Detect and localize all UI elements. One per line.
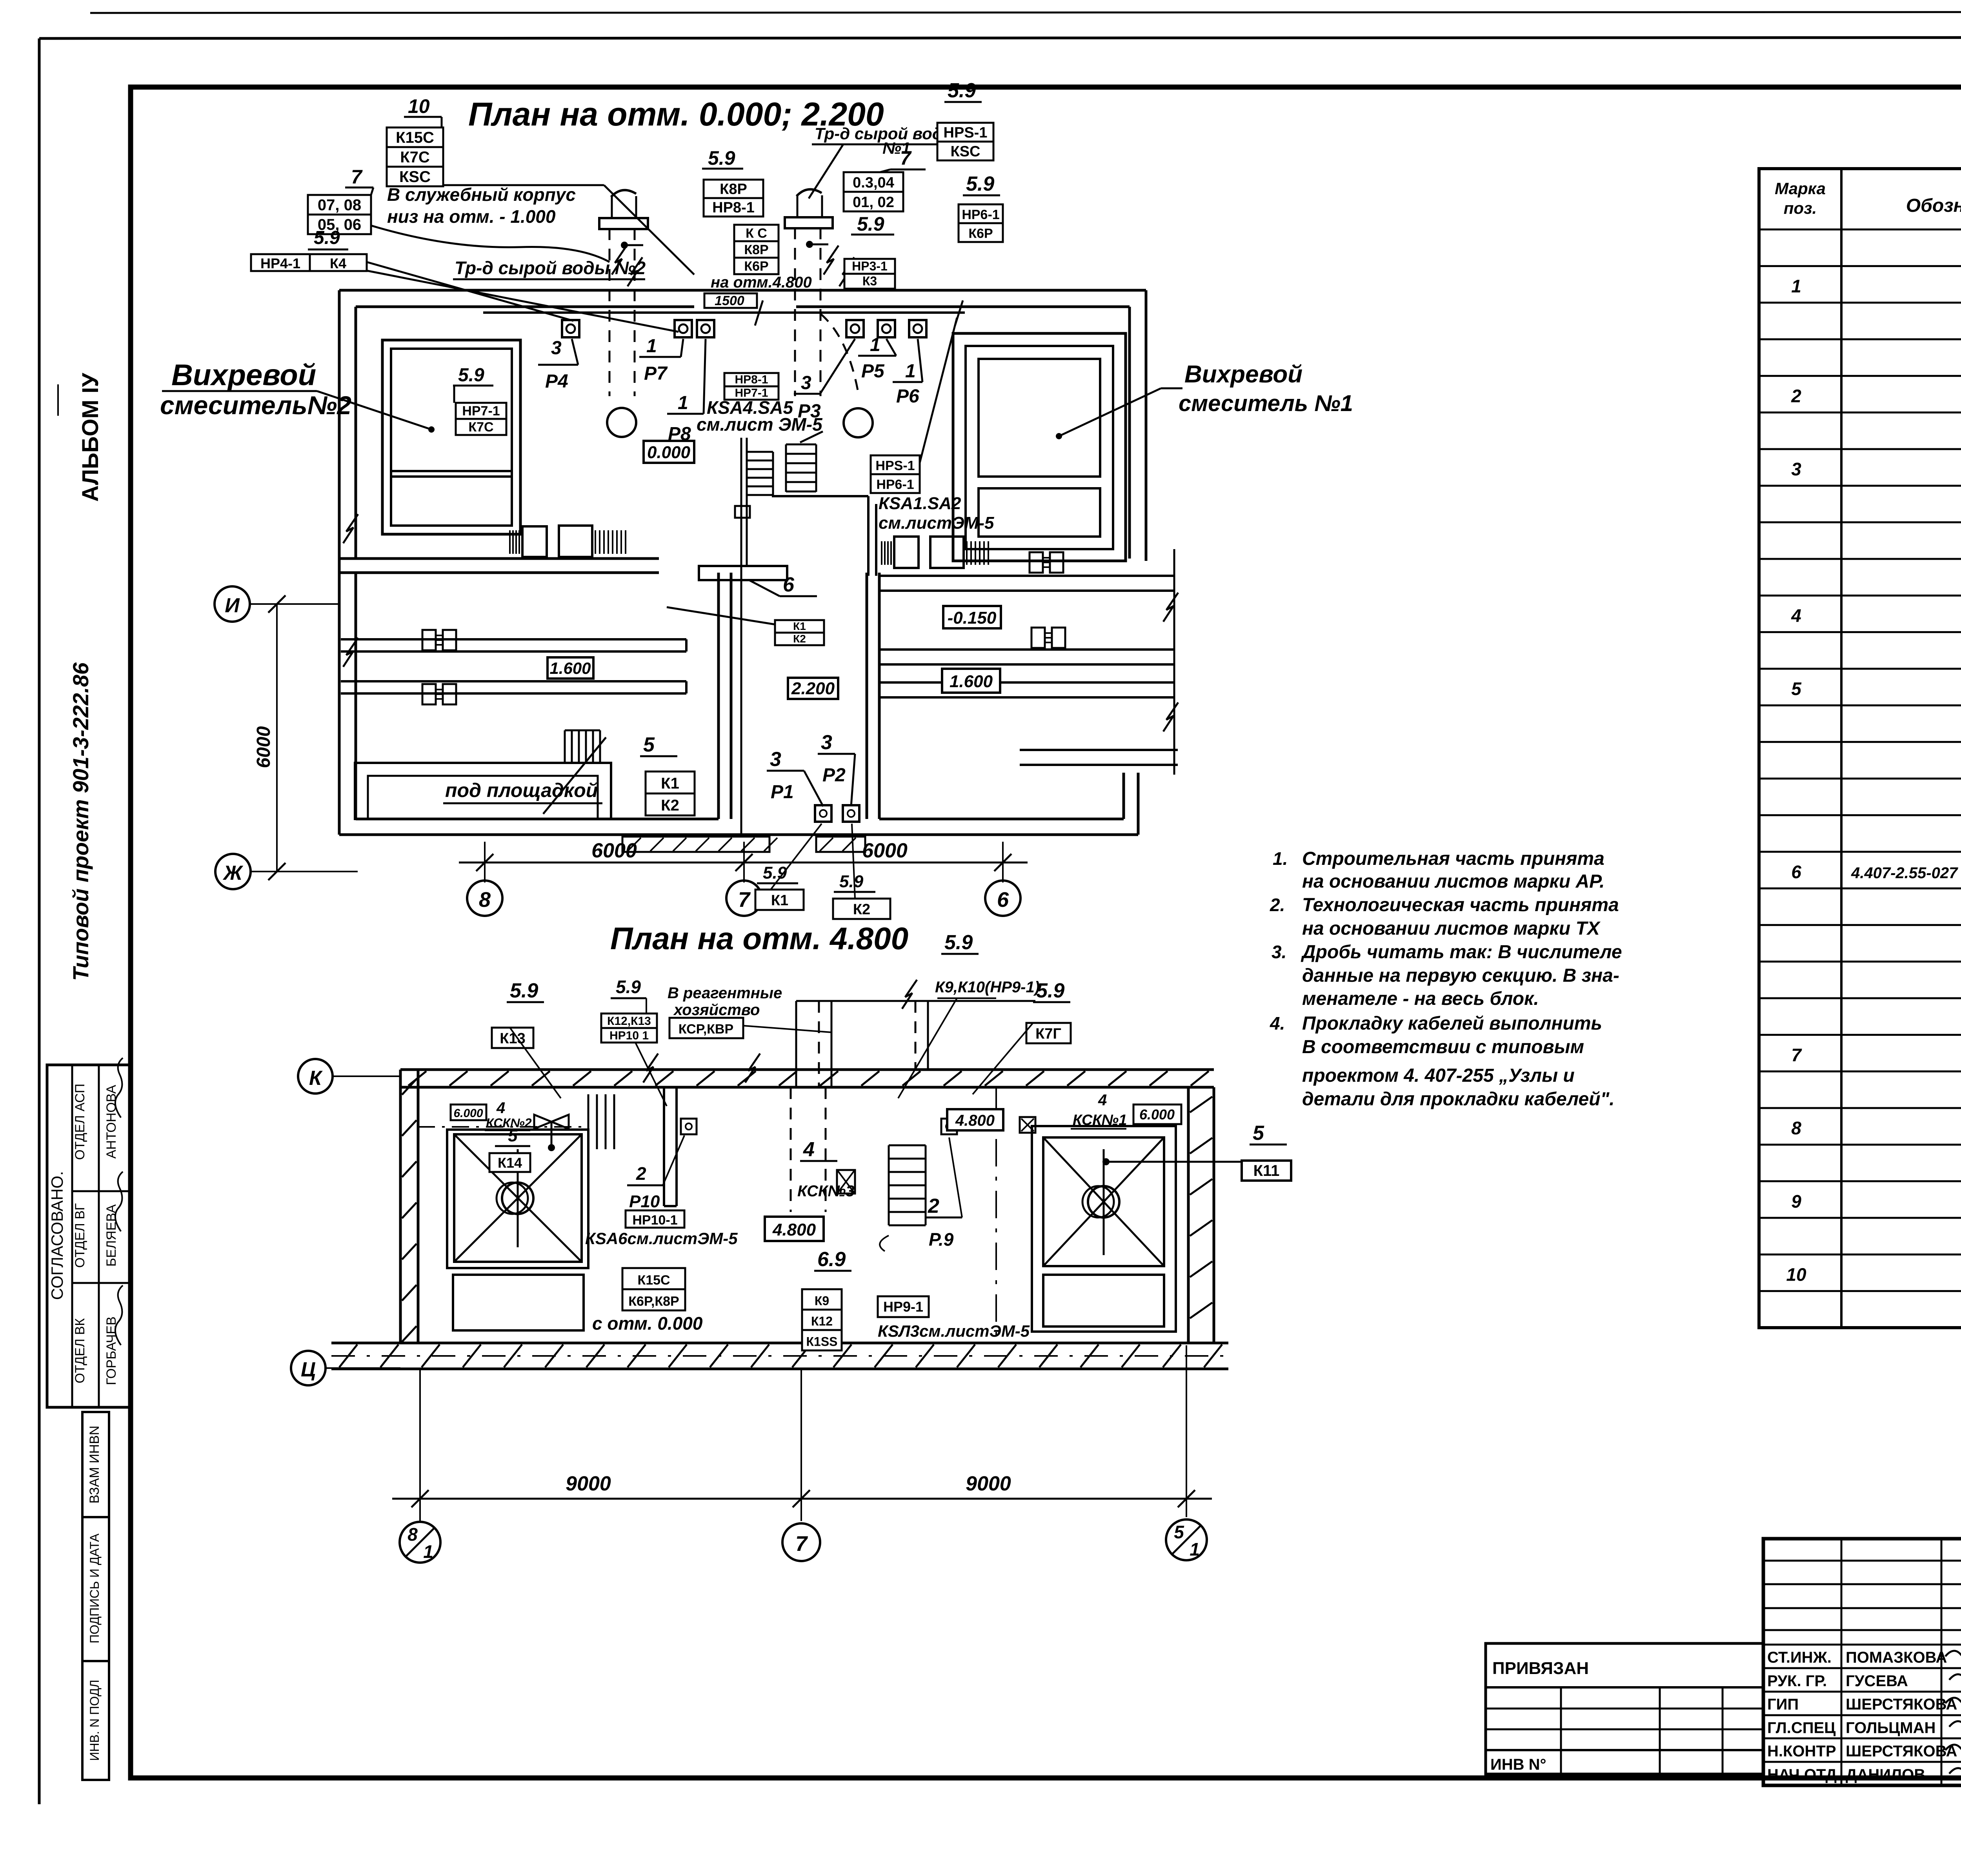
svg-text:3: 3 [801, 373, 811, 393]
plan2 bottom wall (I axis) [331, 1343, 1228, 1369]
plan1 label 5.9 NR6-1 K6P [959, 173, 1003, 242]
plan1 note trd syroy vody 2 [453, 258, 646, 279]
plan1 pod ploshchadkoy [443, 779, 602, 803]
plan2 flag 5 K14 [489, 1126, 530, 1172]
svg-text:1: 1 [646, 336, 657, 357]
plan2 dimension line 9000+9000 [392, 1472, 1212, 1507]
svg-text:07, 08: 07, 08 [318, 197, 361, 214]
svg-text:ОТДЕЛ ВГ: ОТДЕЛ ВГ [73, 1203, 87, 1268]
svg-text:7: 7 [738, 888, 751, 912]
plan1 axis Zh circle [215, 854, 358, 889]
svg-text:ВЗАМ ИНВN: ВЗАМ ИНВN [87, 1426, 102, 1504]
svg-text:4.407-2.55-027 исп. 4: 4.407-2.55-027 исп. 4 [1851, 864, 1961, 882]
plan2 witness lines [420, 1345, 1186, 1521]
svg-text:НРS-1: НРS-1 [875, 458, 915, 473]
plan2 sensor near KCK2 [534, 1115, 569, 1151]
svg-text:5.9: 5.9 [458, 365, 484, 386]
plan1 lower-left stair [543, 730, 606, 814]
plan2 label NR10-1 [585, 1210, 738, 1248]
svg-text:7: 7 [900, 147, 912, 169]
plan1 flag 3/P1 [767, 748, 823, 806]
title block signatures labels [1767, 1647, 1961, 1783]
svg-text:5: 5 [1174, 1522, 1184, 1542]
plan1 flag 3/P4 [538, 338, 578, 392]
plan1 elevation -0.150 [943, 606, 1001, 628]
svg-text:ОТДЕЛ ВК: ОТДЕЛ ВК [73, 1318, 87, 1383]
svg-text:5.9: 5.9 [510, 979, 538, 1002]
table body text [1786, 239, 1961, 1321]
svg-text:КSА1.SА2: КSА1.SА2 [879, 494, 961, 513]
album label [58, 373, 103, 502]
plan2 axis K circle [298, 1059, 400, 1094]
svg-text:ПРИВЯЗАН: ПРИВЯЗАН [1492, 1659, 1589, 1678]
plan2 label 5.9 K9K10 [898, 931, 1040, 1098]
svg-text:Марка: Марка [1775, 179, 1826, 198]
svg-text:5.9: 5.9 [839, 872, 864, 891]
svg-text:6: 6 [997, 888, 1009, 912]
svg-text:ГОЛЬЦМАН: ГОЛЬЦМАН [1846, 1719, 1936, 1736]
svg-text:0.3,04: 0.3,04 [853, 175, 894, 191]
svg-text:1.600: 1.600 [549, 659, 591, 677]
svg-text:Дробь читать так: В числителе: Дробь читать так: В числителе [1301, 942, 1622, 963]
svg-text:1: 1 [678, 393, 688, 413]
svg-text:смеситель№2: смеситель№2 [160, 391, 351, 420]
svg-text:1500: 1500 [715, 293, 744, 308]
plan1 elevation 2.200 [788, 678, 838, 699]
plan1 label 5.9 K8P NR8-1 [702, 147, 763, 217]
svg-text:НР6-1: НР6-1 [962, 207, 999, 222]
svg-text:10: 10 [1786, 1265, 1806, 1285]
svg-text:поз.: поз. [1784, 199, 1817, 217]
plan2 flag 5 K11 right [1102, 1122, 1291, 1181]
svg-text:5.9: 5.9 [966, 173, 994, 195]
svg-text:5: 5 [508, 1126, 518, 1145]
plan2 label NR9-1 [878, 1296, 1030, 1340]
svg-text:КSС: КSС [951, 143, 980, 160]
svg-text:Строительная часть принята: Строительная часть принята [1302, 848, 1604, 869]
plan1 long settling tanks right [879, 549, 1178, 775]
svg-text:6000: 6000 [253, 726, 274, 768]
svg-text:5.9: 5.9 [708, 147, 735, 169]
svg-text:1.: 1. [1273, 848, 1288, 869]
svg-text:К8Р: К8Р [720, 181, 747, 198]
plan1 sensors row [562, 320, 926, 337]
plan1 title [468, 96, 884, 133]
svg-text:4.800: 4.800 [955, 1112, 995, 1129]
plan1 flag 5.9/K1 below [755, 824, 822, 910]
svg-text:К1: К1 [771, 892, 788, 909]
plan1 mixer feed circle left [607, 408, 636, 437]
plan1 pump assembly right [882, 537, 988, 568]
plan1 bottom sensors [815, 805, 859, 822]
svg-text:СОГЛАСОВАНО.: СОГЛАСОВАНО. [48, 1171, 66, 1300]
svg-text:6.000: 6.000 [453, 1107, 483, 1120]
svg-text:2: 2 [1791, 386, 1801, 406]
plan2 flag 2/P9 [925, 1137, 962, 1250]
svg-text:К9,К10(НР9-1): К9,К10(НР9-1) [935, 979, 1040, 996]
plan1 long leader from K4 to sensor1 [367, 262, 573, 321]
plan1 leader fence to pipe1 [371, 185, 694, 275]
plan1 vertical dim 6000 [253, 595, 286, 880]
svg-text:В служебный корпус: В служебный корпус [387, 184, 576, 205]
svg-text:4: 4 [1791, 606, 1801, 626]
plan1 I-axis walls [339, 559, 659, 573]
plan2 label 5.9 K12K13 NR10-1 [601, 977, 667, 1106]
svg-text:К2: К2 [853, 901, 870, 918]
plan1 cable line [483, 300, 965, 326]
svg-text:К: К [309, 1067, 323, 1090]
plan1 raw water pipe 2 (dashed riser) [599, 190, 648, 396]
svg-text:К8Р: К8Р [744, 242, 768, 257]
privyazan extension block [1486, 1643, 1763, 1774]
approval stamp [47, 1058, 131, 1407]
table headers [1775, 179, 1961, 223]
svg-text:см.листЭМ-5: см.листЭМ-5 [879, 513, 994, 533]
svg-text:см.лист ЭМ-5: см.лист ЭМ-5 [697, 414, 823, 435]
svg-text:5.9: 5.9 [944, 931, 973, 954]
svg-text:К7С: К7С [468, 420, 493, 435]
plan2 centre stair [880, 1145, 926, 1251]
plan1 label 7 with 03,04 01,02 [844, 147, 926, 211]
svg-text:1: 1 [1190, 1539, 1200, 1559]
plan2 axis circle 7 [782, 1523, 820, 1561]
plan1 axis circle 7 [726, 862, 762, 916]
svg-text:6000: 6000 [862, 839, 908, 862]
svg-text:НР6-1: НР6-1 [876, 477, 914, 492]
svg-text:НР4-1: НР4-1 [260, 255, 300, 271]
plan2 right tank [1032, 1126, 1176, 1332]
plan1 mixer feed circle right [844, 408, 873, 437]
svg-text:К2: К2 [793, 633, 806, 645]
plan1 building outer walls [339, 290, 1146, 835]
svg-text:ИНВ. N ПОДЛ: ИНВ. N ПОДЛ [87, 1679, 102, 1761]
svg-text:2: 2 [636, 1163, 646, 1184]
project label (rotated) [68, 662, 93, 981]
plan2 sensor P10 [681, 1119, 697, 1134]
plan2 partition wall left-centre [664, 1087, 677, 1206]
svg-text:БЕЛЯЕВА: БЕЛЯЕВА [104, 1204, 119, 1266]
svg-text:КSЛ3см.листЭМ-5: КSЛ3см.листЭМ-5 [878, 1322, 1030, 1340]
svg-text:Р2: Р2 [822, 765, 846, 786]
vzam inv box [82, 1412, 109, 1517]
plan1 dimension line 6000+6000 [459, 839, 1028, 871]
svg-text:8: 8 [407, 1524, 418, 1545]
svg-text:АЛЬБОМ ІУ: АЛЬБОМ ІУ [78, 373, 103, 502]
svg-text:3.: 3. [1272, 942, 1286, 962]
svg-text:НР7-1: НР7-1 [462, 404, 500, 419]
svg-text:6.9: 6.9 [817, 1248, 846, 1271]
svg-text:низ на отм. - 1.000: низ на отм. - 1.000 [387, 206, 556, 227]
plan1 note v sluzhebny korpus [387, 184, 576, 227]
plan1 label 5.9 with NR4-1 K4 [251, 227, 367, 271]
plan1 flag 5.9/K2 below [833, 824, 890, 919]
plan2 label 5.9 K7G [973, 979, 1071, 1094]
svg-text:9000: 9000 [566, 1472, 611, 1495]
svg-text:К15С: К15С [637, 1273, 670, 1288]
plan1 label 5.9 NRS-1 KSC [937, 79, 993, 160]
top scan edge line [90, 12, 1961, 13]
plan1 na otm 4.800 label [704, 274, 812, 308]
plan1 raw water pipe 1 (dashed riser) [785, 189, 858, 396]
svg-text:К9: К9 [815, 1294, 829, 1308]
svg-text:НАЧ.ОТД: НАЧ.ОТД [1767, 1766, 1837, 1783]
plan2 axis circle 5/1 [1166, 1519, 1207, 1560]
plan1 bottom hatched platform [622, 837, 865, 852]
plan2 duct shaft above [791, 980, 1035, 1212]
svg-text:НР9-1: НР9-1 [883, 1299, 923, 1315]
svg-text:6000: 6000 [591, 839, 637, 862]
svg-text:7: 7 [351, 166, 363, 188]
svg-text:ГОРБАЧЕВ: ГОРБАЧЕВ [104, 1316, 119, 1385]
svg-text:детали для прокладки кабелей".: детали для прокладки кабелей". [1302, 1089, 1615, 1110]
svg-text:Р.9: Р.9 [929, 1229, 954, 1250]
svg-text:Н.КОНТР: Н.КОНТР [1767, 1743, 1836, 1760]
plan2 partition dashdot axis [995, 1087, 997, 1343]
plan2 axis I circle [291, 1351, 400, 1385]
svg-text:НР10-1: НР10-1 [632, 1213, 677, 1228]
svg-text:Р7: Р7 [644, 363, 668, 384]
svg-text:К12: К12 [811, 1314, 833, 1328]
svg-text:4: 4 [496, 1099, 505, 1117]
svg-text:проектом 4. 407-255 „Узлы и: проектом 4. 407-255 „Узлы и [1302, 1065, 1575, 1086]
plan2 label 5.9 K13 [492, 979, 561, 1098]
plan1 elevation 1.600 left [548, 657, 593, 679]
svg-text:ГИП: ГИП [1767, 1696, 1799, 1713]
svg-text:9000: 9000 [966, 1472, 1011, 1495]
svg-text:на основании листов марки ТХ: на основании листов марки ТХ [1302, 918, 1601, 939]
svg-text:1: 1 [423, 1541, 433, 1562]
svg-text:7: 7 [795, 1532, 808, 1556]
svg-text:Р6: Р6 [896, 386, 919, 407]
svg-text:5.9: 5.9 [857, 213, 884, 235]
svg-text:Р4: Р4 [545, 371, 568, 392]
plan2 sensor P9 [941, 1119, 957, 1134]
svg-text:6: 6 [783, 573, 795, 596]
plan2 title [610, 921, 908, 956]
svg-text:1.600: 1.600 [950, 672, 993, 691]
plan2 label 6.000 right [1133, 1104, 1181, 1124]
svg-text:5: 5 [1253, 1122, 1264, 1145]
podpis i data box [82, 1517, 109, 1661]
plan1 elevation 1.600 right [942, 669, 1000, 693]
svg-text:ДАНИЛОВ: ДАНИЛОВ [1846, 1766, 1925, 1783]
svg-text:6: 6 [1791, 862, 1801, 882]
svg-text:хозяйство: хозяйство [673, 1001, 760, 1019]
inv n podl box [82, 1661, 109, 1780]
plan2 flag 2/P10 [627, 1135, 684, 1211]
svg-text:РУК. ГР.: РУК. ГР. [1767, 1672, 1827, 1690]
svg-text:4.: 4. [1270, 1013, 1285, 1034]
svg-text:Типовой проект 901-3-222.86: Типовой проект 901-3-222.86 [68, 662, 93, 981]
plan2 label 6.9 K9 K12 K15S [802, 1248, 851, 1350]
svg-text:2.200: 2.200 [791, 679, 835, 698]
svg-text:КСК№1: КСК№1 [1073, 1112, 1127, 1128]
plan1 label KC K8P K6P stack [734, 225, 779, 274]
plan2 label K15C K6PK8P [592, 1268, 703, 1334]
svg-text:ПОМАЗКОВА: ПОМАЗКОВА [1846, 1649, 1947, 1666]
svg-text:5: 5 [1791, 679, 1802, 699]
svg-text:ГУСЕВА: ГУСЕВА [1846, 1672, 1908, 1690]
svg-text:5: 5 [643, 733, 655, 756]
svg-text:1: 1 [905, 361, 916, 382]
svg-text:8: 8 [479, 888, 491, 912]
svg-text:ШЕРСТЯКОВА: ШЕРСТЯКОВА [1846, 1743, 1957, 1760]
plan1 axis I circle [215, 586, 339, 622]
plan1 axis circle 8 [467, 862, 502, 916]
svg-text:ПОДПИСЬ И ДАТА: ПОДПИСЬ И ДАТА [87, 1533, 102, 1643]
svg-text:Ж: Ж [222, 862, 244, 884]
svg-text:СТ.ИНЖ.: СТ.ИНЖ. [1767, 1649, 1832, 1666]
svg-text:менателе - на весь блок.: менателе - на весь блок. [1302, 988, 1539, 1009]
title block left grid [1763, 1539, 1961, 1785]
plan1 flag 1/P5 [858, 335, 896, 382]
plan2 label 6.000 left + KCK2 [451, 1099, 532, 1130]
plan1 elevation 0.000 [644, 441, 694, 463]
plan1 flag 1/P8 [667, 339, 706, 444]
svg-text:К7Г: К7Г [1035, 1026, 1061, 1042]
svg-text:К1SS: К1SS [806, 1335, 837, 1349]
plan1 tank pipe connectors [422, 552, 1065, 704]
plan2 top wall (K axis) [400, 1070, 1214, 1087]
svg-text:К7С: К7С [400, 149, 430, 166]
plan1 axis circle 6 [985, 862, 1021, 916]
svg-text:К11: К11 [1253, 1162, 1280, 1179]
svg-text:КSС: КSС [399, 168, 431, 186]
svg-text:3: 3 [1791, 459, 1801, 479]
svg-text:Р1: Р1 [771, 782, 794, 802]
plan1 flag 1/P6 [893, 339, 922, 407]
plan1 label 7 with 07,08 05,06 [308, 166, 373, 234]
plan2 elevation 4.800 right [947, 1109, 1003, 1130]
svg-text:4.800: 4.800 [772, 1220, 816, 1239]
plan1 note trd syroy vody 1 [809, 124, 957, 198]
svg-text:НР10 1: НР10 1 [609, 1029, 649, 1042]
plan1 label 10 with K15C stack [387, 95, 443, 186]
plan1 witness lines [485, 842, 1003, 883]
svg-text:3: 3 [770, 748, 781, 771]
svg-text:План на отм. 4.800: План на отм. 4.800 [610, 921, 908, 956]
plan2 flag 4 KCK3 [797, 1138, 855, 1200]
svg-text:КSА6см.листЭМ-5: КSА6см.листЭМ-5 [585, 1229, 738, 1248]
plan2 left tank [418, 1094, 614, 1330]
plan1 flag 1/P7 [639, 336, 683, 384]
plan1 long settling tanks left [341, 639, 686, 693]
svg-text:НР3-1: НР3-1 [852, 259, 888, 273]
svg-text:Технологическая часть принята: Технологическая часть принята [1302, 895, 1619, 915]
svg-text:01, 02: 01, 02 [853, 194, 894, 211]
svg-text:К14: К14 [498, 1155, 522, 1171]
svg-text:Р5: Р5 [861, 361, 885, 382]
svg-text:1: 1 [1791, 276, 1801, 297]
svg-text:И: И [225, 594, 240, 617]
plan1 vortex mixer 2 label [160, 358, 435, 433]
svg-text:КСК№3: КСК№3 [797, 1183, 855, 1200]
svg-text:7: 7 [1791, 1045, 1802, 1065]
svg-text:Тр-д сырой воды №2: Тр-д сырой воды №2 [455, 258, 646, 278]
svg-text:5.9: 5.9 [616, 977, 641, 997]
svg-text:на основании листов марки АР.: на основании листов марки АР. [1302, 871, 1604, 892]
notes block [1270, 848, 1622, 1110]
plan1 label 5.9 NR3-1 K3 [844, 213, 895, 289]
plan1 pump assembly left [510, 526, 626, 557]
svg-text:ГЛ.СПЕЦ: ГЛ.СПЕЦ [1767, 1719, 1835, 1736]
svg-text:на отм.4.800: на отм.4.800 [711, 274, 812, 291]
svg-text:данные на первую секцию. В зна: данные на первую секцию. В зна- [1302, 965, 1619, 986]
plan1 centre opening walls [719, 573, 879, 819]
plan1 left mixer room [382, 340, 520, 534]
svg-text:НР8-1: НР8-1 [735, 373, 768, 386]
svg-text:Р10: Р10 [629, 1192, 660, 1211]
svg-text:К12,К13: К12,К13 [607, 1015, 651, 1028]
plan2 sensor KCK1 [1020, 1117, 1035, 1133]
svg-text:В соответствии с типовым: В соответствии с типовым [1302, 1037, 1584, 1057]
svg-text:4: 4 [1098, 1092, 1107, 1109]
svg-text:В реагентные: В реагентные [668, 984, 782, 1002]
svg-text:1: 1 [870, 335, 880, 355]
svg-text:5.9: 5.9 [948, 79, 976, 102]
svg-text:К6Р: К6Р [744, 259, 768, 274]
plan2 label 4 KCK1 [1071, 1092, 1127, 1129]
svg-text:0.000: 0.000 [647, 443, 691, 462]
svg-text:10: 10 [408, 95, 430, 117]
plan2 small squiggles on top wall [643, 1054, 760, 1083]
svg-text:4: 4 [803, 1138, 815, 1161]
svg-text:Вихревой: Вихревой [1184, 361, 1302, 388]
svg-text:Ц: Ц [301, 1358, 316, 1381]
svg-text:под площадкой: под площадкой [445, 779, 598, 801]
svg-text:К С: К С [746, 226, 767, 241]
svg-text:9: 9 [1791, 1191, 1801, 1212]
title block outer [1763, 1539, 1961, 1785]
svg-text:Прокладку кабелей выполнить: Прокладку кабелей выполнить [1302, 1013, 1602, 1034]
svg-text:3: 3 [551, 338, 562, 358]
plan2 right wall [1188, 1087, 1214, 1343]
svg-text:Обозначение: Обозначение [1906, 195, 1961, 216]
svg-text:с отм. 0.000: с отм. 0.000 [592, 1313, 703, 1334]
svg-text:ИНВ N°: ИНВ N° [1490, 1756, 1546, 1773]
plan1 label NRS-1 NR6-1 KSA1 [871, 318, 994, 533]
plan1 flag 3/P3 [794, 339, 855, 422]
plan1 label 5.9 NR7-1 K7C in left room [453, 365, 506, 435]
plan1 landing platform [699, 566, 787, 580]
svg-text:НРS-1: НРS-1 [944, 124, 988, 141]
plan2 note v reagentnye [668, 984, 831, 1038]
plan1 pod ploshchadkoy room [355, 763, 611, 819]
equipment table grid [1759, 169, 1961, 1328]
svg-text:К2: К2 [661, 797, 679, 814]
svg-text:2: 2 [928, 1195, 939, 1217]
svg-text:2.: 2. [1270, 895, 1285, 915]
svg-text:ОТДЕЛ АСП: ОТДЕЛ АСП [73, 1084, 87, 1160]
plan1 vortex mixer 1 label [1056, 361, 1353, 439]
svg-text:6.000: 6.000 [1139, 1106, 1175, 1123]
svg-text:К1: К1 [661, 775, 679, 792]
plan1 label NR8-1 NR7-1 KSA4 [697, 373, 823, 435]
svg-text:3: 3 [821, 731, 832, 754]
plan1 flag 5 with K1 K2 [640, 733, 695, 815]
svg-text:смеситель №1: смеситель №1 [1179, 391, 1353, 416]
svg-text:5.9: 5.9 [1036, 979, 1064, 1002]
svg-text:К6Р,К8Р: К6Р,К8Р [628, 1294, 679, 1309]
plan1 flag 3/P2 [818, 731, 855, 806]
plan2 left wall [400, 1070, 418, 1343]
svg-text:К6Р: К6Р [968, 226, 993, 241]
plan1 leader K7C to sensor2 [367, 271, 679, 332]
svg-text:5.9: 5.9 [314, 227, 340, 248]
svg-text:-0.150: -0.150 [948, 608, 997, 628]
plan2 elevation 4.800 centre [765, 1217, 824, 1241]
plan1 right mixer room [953, 333, 1126, 561]
